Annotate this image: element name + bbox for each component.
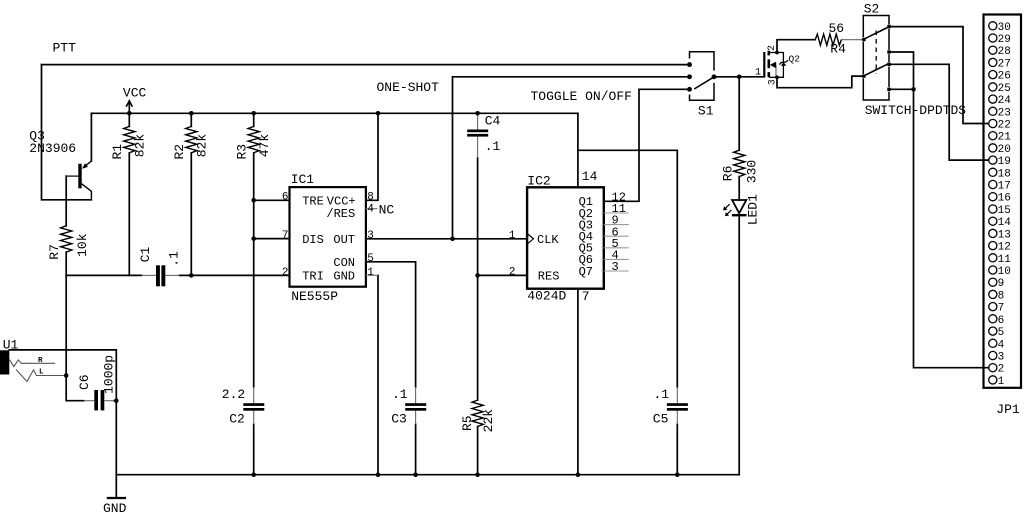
wire VCC tap to C5 top [578,150,677,387]
svg-text:C4: C4 [485,114,501,129]
svg-text:82k: 82k [195,134,210,158]
connector U1 audio jack [0,350,66,381]
svg-text:15: 15 [998,205,1011,217]
svg-text:R5: R5 [460,415,475,431]
IC1 pin numbers [282,192,374,279]
resistor R5 [472,400,483,426]
svg-text:16: 16 [998,193,1011,205]
wire IC1 pin1 GND down to ground rail [377,275,379,474]
svg-text:4: 4 [998,339,1005,351]
svg-text:29: 29 [998,34,1011,46]
wire VCC rail left end down to Q3 emitter [90,113,92,161]
svg-text:26: 26 [998,71,1011,83]
wire IC2 pin7 GND to ground rail [577,289,579,475]
wire R7 bottom to jack L node [65,252,67,375]
svg-text:IC2: IC2 [527,174,550,189]
svg-text:C1: C1 [138,246,153,262]
svg-text:C5: C5 [653,412,669,427]
wire jack L node down to C6 left lead [66,376,84,401]
svg-text:8: 8 [367,192,374,204]
svg-text:VCC: VCC [123,86,147,101]
resistor R7 [61,226,72,252]
wire C6 right lead to ground column [114,400,116,402]
svg-text:LED1: LED1 [746,194,761,225]
svg-text:R7: R7 [47,244,62,260]
wire IC1 pin8 to VCC rail [366,113,378,200]
svg-text:3: 3 [367,230,374,242]
svg-text:R3: R3 [235,144,250,160]
svg-text:C3: C3 [391,412,407,427]
wire TOGGLE net IC2 Q1 pin12 up to S1 bottom contact [604,89,688,201]
svg-text:.1: .1 [167,251,182,267]
svg-text:U1: U1 [3,337,19,352]
wire C4 column VCC to RES node [477,158,479,400]
svg-text:1: 1 [509,230,516,242]
svg-text:2: 2 [509,266,516,278]
svg-text:10: 10 [998,266,1011,278]
svg-text:13: 13 [998,229,1011,241]
svg-text:TRE: TRE [302,195,324,209]
wire S2 throw2b to pin2 column [891,88,914,90]
svg-text:DIS: DIS [302,233,324,247]
transistor Q3 2N3906 [66,161,91,200]
wire R2 bottom lead [190,153,192,276]
svg-text:6: 6 [998,315,1005,327]
VCC arrow symbol [126,101,132,114]
connector JP1 [984,15,1022,388]
svg-text:S1: S1 [698,103,714,118]
svg-text:7: 7 [582,289,590,304]
wire RES net to IC2 pin2 [478,274,527,276]
wire S2 throw2a to JP1 pin19 [891,64,989,160]
wire VCC rail end down to IC2 pin14 [577,113,579,187]
svg-text:2: 2 [282,267,289,279]
wire LED column: S1 node down through R6 and LED1 to ground rail [738,77,740,150]
wire R3 top lead [253,113,255,126]
IC1 pin4 NC stub [366,208,378,210]
wire R3 column down through IC1 pin6/pin7 taps to C2 [253,153,255,387]
transistor Q2 pin numbers [755,45,778,85]
svg-text:11: 11 [998,254,1012,266]
svg-text:2: 2 [998,364,1005,376]
ground symbol GND [107,497,126,499]
wire C2 bottom lead to ground rail [253,424,255,474]
svg-text:TOGGLE ON/OFF: TOGGLE ON/OFF [531,89,632,104]
svg-text:7: 7 [282,230,289,242]
wire Q2 drain up to R4 [777,40,815,53]
svg-text:L: L [39,369,44,377]
svg-text:82k: 82k [133,134,148,158]
svg-text:ONE-SHOT: ONE-SHOT [377,80,440,95]
svg-text:NE555P: NE555P [291,289,338,304]
IC1 NE555P box [290,187,366,287]
svg-text:R4: R4 [830,42,846,57]
svg-text:R6: R6 [721,166,736,182]
svg-text:2N3906: 2N3906 [29,141,76,156]
IC1 inner pin names [302,195,355,284]
switch S2 (DPDT) [862,16,891,101]
svg-text:5: 5 [367,253,374,265]
svg-text:6: 6 [282,192,289,204]
svg-text:9: 9 [998,278,1005,290]
IC2 CLK input triangle [527,234,533,245]
LED1 [723,200,746,216]
IC1 pin1 GND stub [366,274,378,276]
resistor R6 [734,150,745,176]
capacitor C3 [415,387,417,403]
svg-text:4: 4 [367,203,374,215]
wire R4 right lead to S2 pole1 (thin) [841,39,862,41]
connector JP1 pin numbers [998,22,1012,388]
transistor Q2 (MOSFET with body diode) [764,51,788,80]
svg-text:7: 7 [998,303,1005,315]
svg-text:5: 5 [998,327,1005,339]
svg-text:.1: .1 [485,139,501,154]
wire S2 throw1a to JP1 pin22 [891,27,989,124]
svg-text:27: 27 [998,58,1011,70]
svg-text:1: 1 [755,68,761,79]
capacitor C2 [253,387,255,403]
svg-text:NC: NC [379,202,395,217]
svg-text:2: 2 [767,45,778,51]
wire IC1 pin6 to R3 column [254,199,290,201]
wire PTT net top [42,64,688,66]
svg-text:10k: 10k [75,233,90,257]
svg-text:1000p: 1000p [101,355,116,394]
svg-text:47k: 47k [257,134,272,158]
svg-text:4024D: 4024D [527,289,566,304]
svg-text:.1: .1 [654,387,670,402]
wire IC1 pin7 to R3 column [254,238,290,240]
svg-text:2.2: 2.2 [222,387,245,402]
capacitor C5 [676,387,678,403]
wire ground rail [116,474,739,476]
svg-text:18: 18 [998,168,1011,180]
svg-text:25: 25 [998,83,1011,95]
wire PTT left drop to Q3 collector [42,65,92,200]
svg-text:Q7: Q7 [579,265,593,279]
wire Q2 source down and right to S2 pole2 [777,76,862,88]
resistor R3 [248,126,259,152]
svg-text:3: 3 [767,79,778,85]
resistor R4 (horizontal) [815,34,841,45]
svg-text:.1: .1 [392,387,408,402]
svg-text:19: 19 [998,156,1011,168]
svg-text:IC1: IC1 [291,172,315,187]
wire C3 bottom lead to ground rail [415,424,417,474]
svg-text:TRI: TRI [302,269,324,283]
svg-text:30: 30 [998,22,1011,34]
capacitor C1 (vertical plates) [142,274,157,276]
svg-text:3: 3 [998,352,1005,364]
svg-text:56: 56 [829,21,845,36]
wire S1 pivot to Q2 gate [716,76,765,78]
wire TRI net: R7/C1 to IC1 pin2 [66,274,141,276]
svg-text:R2: R2 [172,144,187,160]
svg-text:22k: 22k [481,409,496,433]
wire R2 top lead [190,113,192,126]
svg-text:24: 24 [998,95,1012,107]
svg-text:8: 8 [998,290,1005,302]
capacitor C6 (vertical plates, between L node and ground column) [94,390,98,410]
IC2 pin numbers [509,169,626,304]
svg-text:C2: C2 [229,412,245,427]
svg-text:21: 21 [998,132,1012,144]
svg-text:330: 330 [745,160,760,183]
op-amp : none ; switch S1 [688,52,716,100]
svg-text:CLK: CLK [537,233,559,247]
svg-text:Q2: Q2 [789,54,801,65]
wire IC1 pin3 OUT to IC2 CLK [366,238,527,240]
svg-text:20: 20 [998,144,1011,156]
svg-text:JP1: JP1 [996,402,1020,417]
resistor R2 [186,126,197,152]
wire IC1 pin5 CON to C3 [366,262,416,387]
wire ground symbol drop [115,475,117,497]
svg-text:RES: RES [538,270,560,284]
svg-text:14: 14 [582,169,598,184]
wire S2 throw1b down to JP1 pin2 [891,52,989,368]
svg-text:OUT: OUT [333,233,355,247]
svg-text:12: 12 [998,242,1011,254]
svg-text:GND: GND [333,269,355,283]
svg-text:23: 23 [998,107,1011,119]
svg-text:S2: S2 [864,2,880,17]
svg-text:3: 3 [612,260,619,274]
wire VCC rail [91,112,578,114]
svg-text:22: 22 [998,120,1011,132]
svg-text:PTT: PTT [53,40,77,55]
IC2 inner pin names [537,195,593,283]
wire Q3 base to R7 [65,176,67,226]
wire R1 bottom lead [128,153,130,276]
svg-text:C6: C6 [77,374,92,390]
wire ONE-SHOT branch up to S1 middle contact [453,77,688,239]
svg-text:GND: GND [103,501,127,516]
wire C5 bottom lead to ground rail [676,424,678,474]
wire R1 top lead [128,113,130,126]
svg-text:SWITCH-DPDTDS: SWITCH-DPDTDS [865,103,967,118]
wire jack sleeve to ground column [9,350,116,475]
svg-text:R1: R1 [110,144,125,160]
resistor R1 [124,126,135,152]
capacitor C4 (horizontal plates) [477,115,479,130]
svg-text:17: 17 [998,181,1011,193]
IC2 4024D box [527,187,604,288]
svg-text:1: 1 [998,376,1005,388]
svg-text:14: 14 [998,217,1012,229]
svg-text:CON: CON [333,256,355,270]
svg-text:1: 1 [367,267,374,279]
IC2 Q2-Q7 stubs [604,213,629,271]
svg-text:/RES: /RES [326,207,355,221]
wire R5 bottom lead to ground rail [477,427,479,475]
svg-text:28: 28 [998,46,1011,58]
svg-text:R: R [38,357,43,365]
